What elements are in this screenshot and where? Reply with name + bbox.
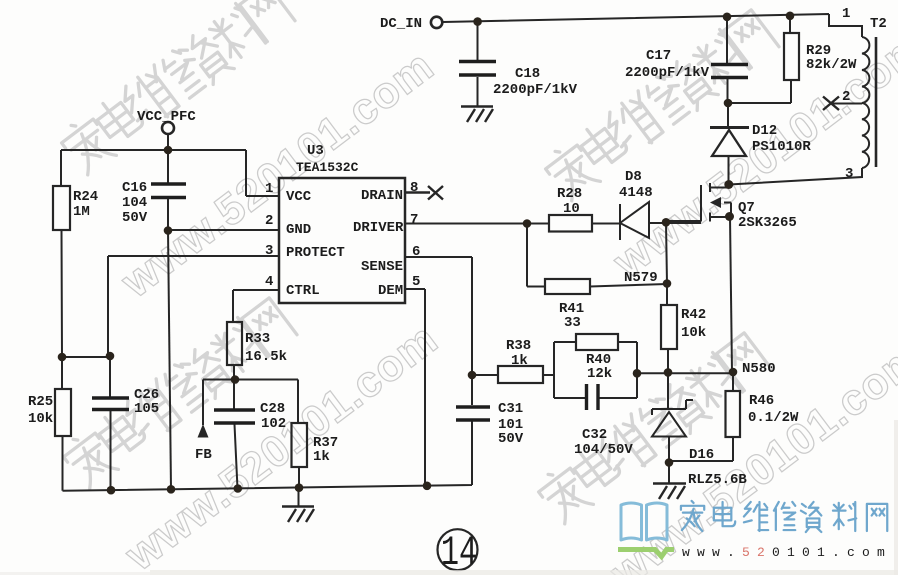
svg-text:R24: R24 (73, 189, 98, 205)
svg-text:GND: GND (286, 222, 311, 238)
svg-text:1k: 1k (511, 353, 528, 369)
svg-text:8: 8 (410, 180, 418, 196)
svg-text:2: 2 (265, 213, 273, 229)
svg-text:16.5k: 16.5k (245, 349, 287, 365)
svg-text:0.1/2W: 0.1/2W (748, 410, 799, 426)
svg-text:R46: R46 (749, 393, 774, 409)
svg-text:D12: D12 (752, 123, 777, 139)
svg-text:VCC_PFC: VCC_PFC (137, 109, 196, 125)
svg-text:N579: N579 (624, 270, 658, 286)
svg-text:D16: D16 (689, 447, 714, 463)
svg-text:VCC: VCC (286, 189, 312, 205)
svg-text:50V: 50V (498, 431, 524, 447)
svg-text:104: 104 (122, 195, 147, 211)
svg-text:3: 3 (845, 166, 853, 182)
svg-text:DEM: DEM (378, 283, 403, 299)
svg-text:105: 105 (134, 401, 159, 417)
svg-text:T2: T2 (870, 16, 887, 32)
svg-text:D8: D8 (625, 169, 642, 185)
svg-text:C17: C17 (646, 48, 671, 64)
svg-text:C16: C16 (122, 180, 147, 196)
svg-text:1: 1 (842, 6, 850, 22)
svg-text:N580: N580 (742, 361, 776, 377)
svg-text:2: 2 (842, 89, 850, 105)
svg-text:DRIVER: DRIVER (353, 220, 404, 236)
svg-text:R38: R38 (506, 338, 531, 354)
svg-text:82k/2W: 82k/2W (806, 57, 857, 73)
svg-text:FB: FB (195, 447, 212, 463)
svg-text:TEA1532C: TEA1532C (296, 160, 359, 175)
svg-text:10k: 10k (681, 325, 706, 341)
svg-text:4: 4 (265, 274, 273, 290)
svg-text:102: 102 (261, 416, 286, 432)
svg-text:DC_IN: DC_IN (380, 16, 422, 32)
svg-text:14: 14 (441, 530, 477, 575)
svg-text:C32: C32 (582, 427, 607, 443)
svg-text:Q7: Q7 (738, 200, 755, 216)
svg-text:1: 1 (265, 181, 273, 197)
svg-text:R33: R33 (245, 331, 270, 347)
svg-text:R28: R28 (557, 186, 582, 202)
svg-text:R25: R25 (28, 394, 53, 410)
svg-text:C28: C28 (260, 401, 285, 417)
svg-text:2200pF/1kV: 2200pF/1kV (625, 65, 710, 81)
svg-text:www.520101.com: www.520101.com (682, 545, 892, 560)
svg-text:PS1010R: PS1010R (752, 139, 811, 155)
svg-text:R42: R42 (681, 307, 706, 323)
svg-text:104/50V: 104/50V (574, 442, 633, 458)
svg-text:6: 6 (412, 244, 420, 260)
svg-text:U3: U3 (307, 143, 324, 159)
svg-text:12k: 12k (587, 366, 612, 382)
svg-text:C18: C18 (515, 66, 540, 82)
svg-text:1k: 1k (313, 449, 330, 465)
svg-text:CTRL: CTRL (286, 283, 320, 299)
svg-text:33: 33 (564, 315, 581, 331)
svg-text:3: 3 (265, 243, 273, 259)
svg-text:DRAIN: DRAIN (361, 188, 403, 204)
svg-text:RLZ5.6B: RLZ5.6B (688, 472, 747, 488)
svg-text:10k: 10k (28, 411, 53, 427)
svg-text:SENSE: SENSE (361, 259, 403, 275)
svg-text:10: 10 (563, 201, 580, 217)
svg-text:7: 7 (410, 212, 418, 228)
svg-text:2SK3265: 2SK3265 (738, 215, 797, 231)
svg-text:1M: 1M (73, 204, 90, 220)
svg-text:4148: 4148 (619, 185, 653, 201)
svg-text:C31: C31 (498, 401, 523, 417)
svg-text:PROTECT: PROTECT (286, 245, 345, 261)
svg-text:2200pF/1kV: 2200pF/1kV (493, 82, 578, 98)
svg-text:50V: 50V (122, 210, 148, 226)
svg-text:5: 5 (412, 274, 420, 290)
